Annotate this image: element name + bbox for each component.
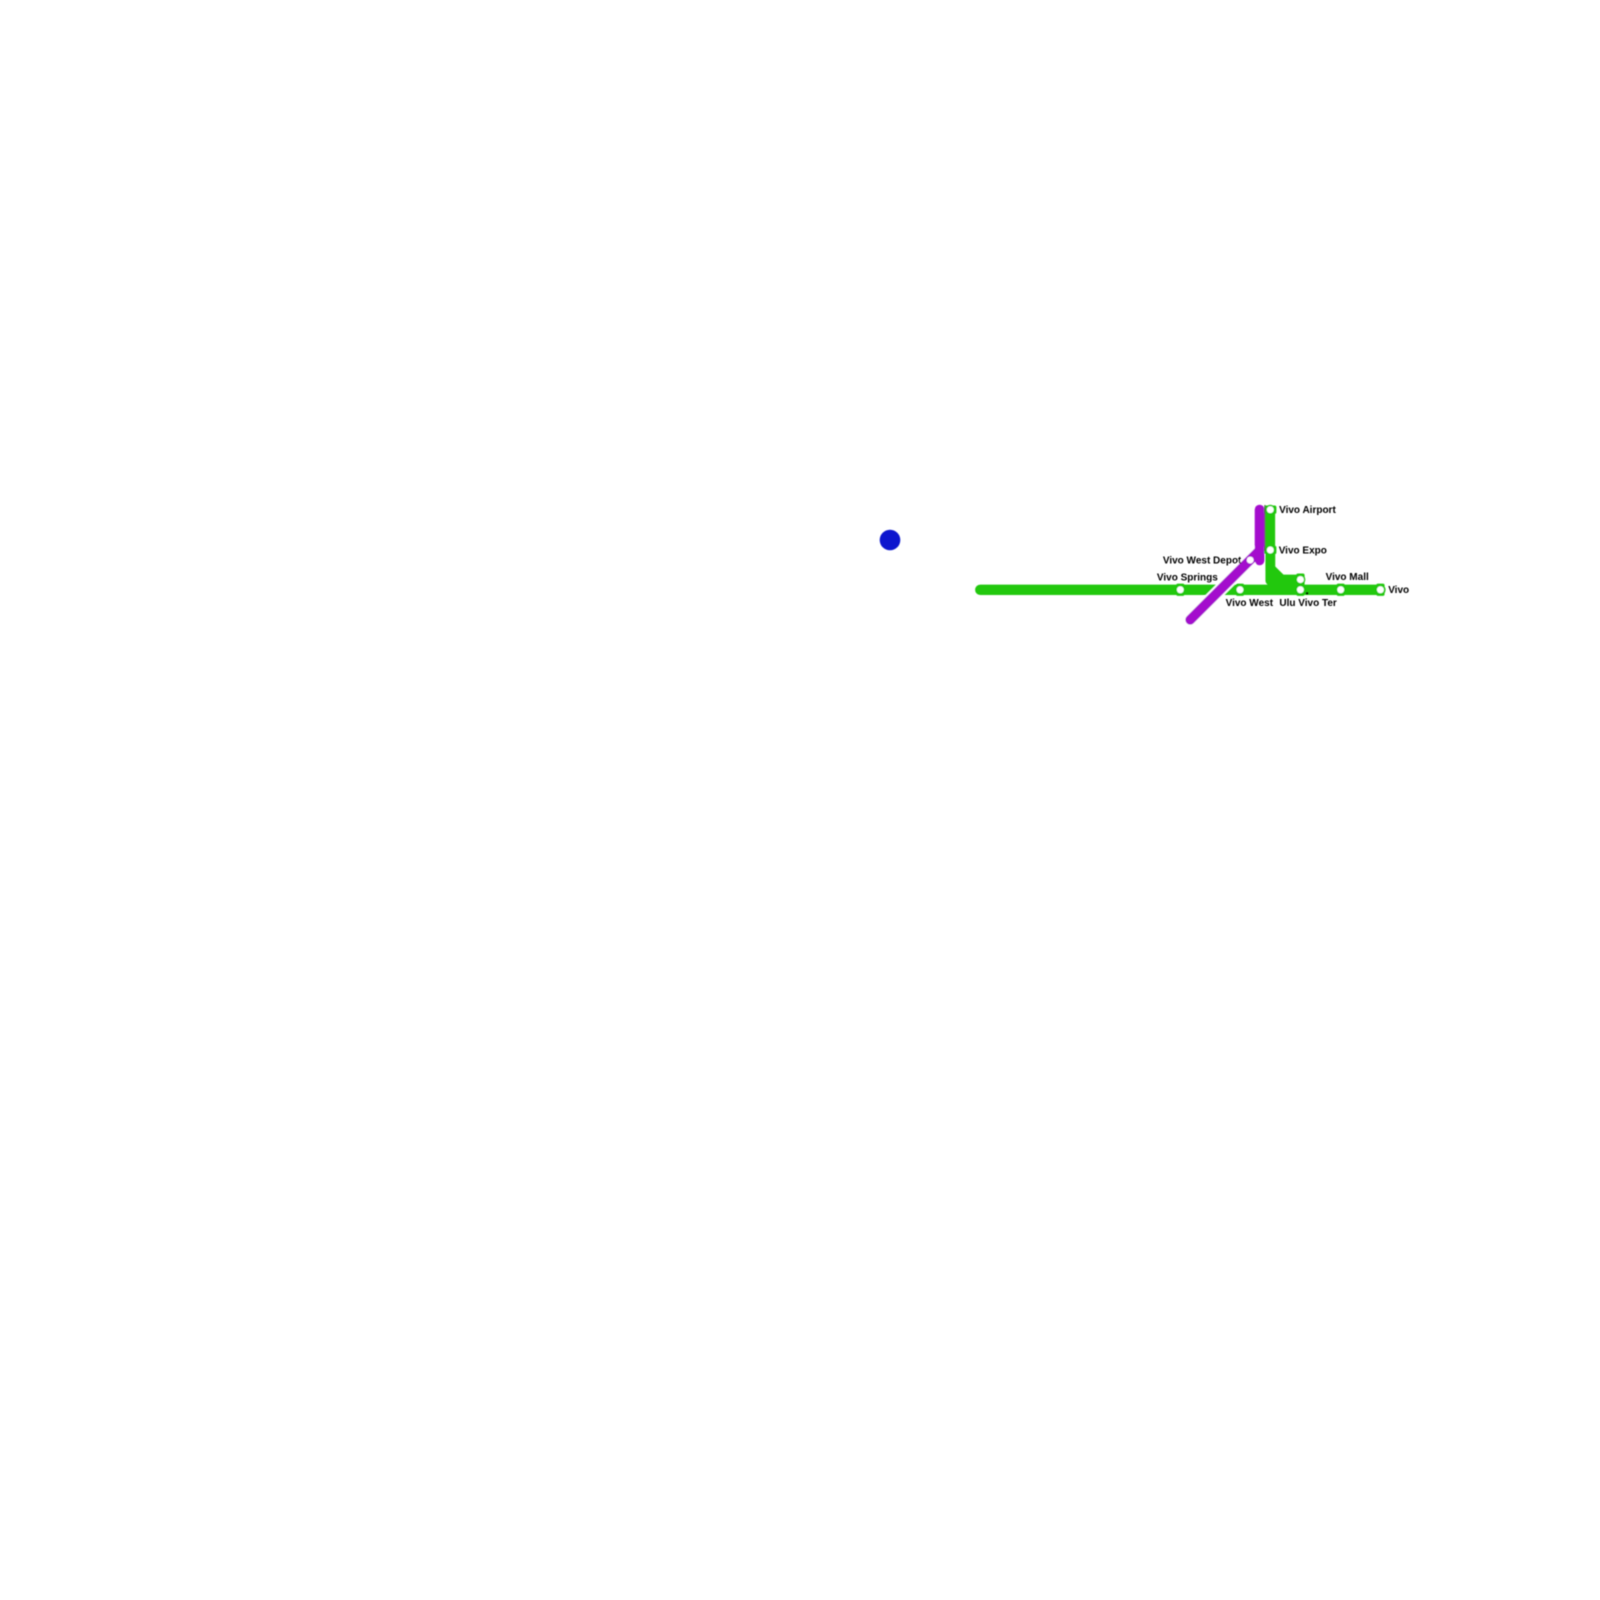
purple line diagonal white bridge casing [1190,550,1259,619]
station Vivo Expo [1264,546,1276,554]
blue landmark dot [880,530,901,551]
station Vivo terminus [1376,584,1384,596]
svg-text:Ulu Vivo Ter: Ulu Vivo Ter [1279,598,1337,609]
station Vivo West [1236,584,1244,596]
green line elbow stub to Ulu terminus [1270,555,1300,580]
station Ulu Vivo Ter branch terminus [1296,574,1304,586]
stray period mark [1306,592,1309,595]
svg-text:Vivo: Vivo [1388,585,1409,596]
station Vivo Airport [1264,506,1276,514]
green elbow wedge filler [1274,578,1282,585]
svg-text:Vivo Mall: Vivo Mall [1326,572,1369,583]
dark antialias seam between purple and green verticals [1264,505,1266,551]
svg-text:Vivo Expo: Vivo Expo [1279,546,1327,557]
purple line vertical segment [1255,510,1265,561]
svg-text:Vivo Springs: Vivo Springs [1157,572,1218,583]
green line airport branch vertical [1265,510,1275,581]
svg-text:Vivo Airport: Vivo Airport [1279,505,1336,516]
svg-text:Vivo West: Vivo West [1226,598,1274,609]
station Vivo Mall [1337,584,1345,596]
station Vivo Springs [1176,584,1184,596]
svg-text:Vivo West Depot: Vivo West Depot [1163,556,1242,567]
green line main horizontal [980,585,1380,595]
green seam filler between stub and main line [1268,583,1305,586]
station Ulu Vivo Ter main line [1296,584,1304,596]
purple line diagonal segment [1190,550,1259,619]
station Vivo West Depot [1243,553,1258,568]
